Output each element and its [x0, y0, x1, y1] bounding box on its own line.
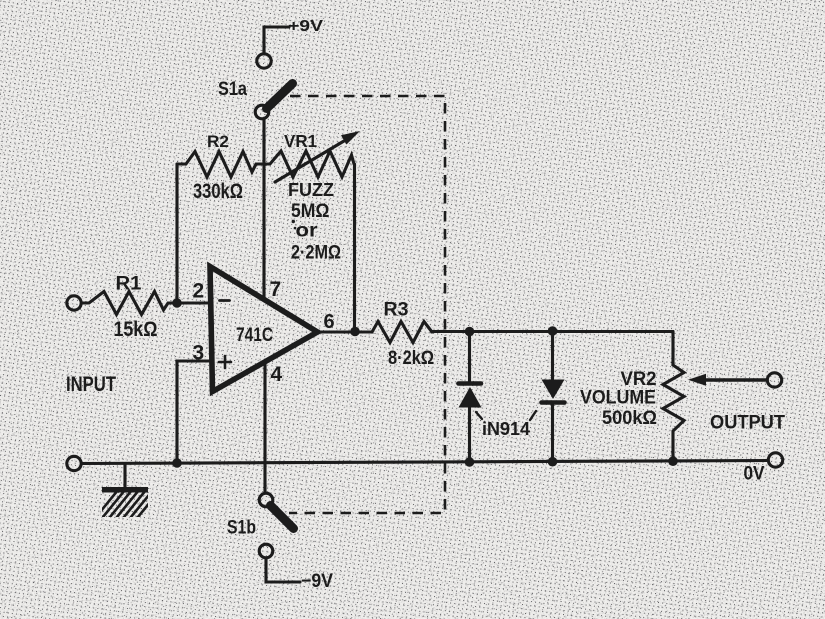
VR2 wiper arrow — [688, 374, 767, 386]
VR1 right leg down to pin 6 node — [353, 164, 356, 332]
svg-text:VR1: VR1 — [284, 131, 317, 151]
switch S1a arm — [267, 84, 293, 109]
label VR2 — [621, 369, 657, 390]
+9V supply wire — [264, 27, 289, 54]
speck under 5M — [292, 220, 295, 223]
label VOLUME — [580, 387, 656, 409]
svg-text:4: 4 — [271, 363, 283, 386]
pin label 3 — [193, 342, 205, 365]
tick left of label — [476, 412, 482, 419]
wire S1a to op-amp pin 7 — [262, 119, 265, 299]
svg-text:2·2MΩ: 2·2MΩ — [291, 243, 341, 264]
dashed gang link S1a-S1b — [289, 96, 445, 513]
resistor R1 — [82, 292, 178, 315]
OUTPUT terminal — [767, 373, 781, 387]
non-inverting input mark — [219, 356, 231, 368]
speck before or — [294, 227, 297, 230]
junction D1 / 0V — [465, 457, 475, 467]
switch S1a pole — [255, 105, 269, 119]
+9V label — [288, 18, 323, 35]
svg-text:or: or — [296, 221, 319, 242]
wire pin 6 to R3 — [318, 330, 373, 333]
label FUZZ — [288, 180, 334, 200]
pin label 6 — [324, 311, 335, 333]
svg-text:+9V: +9V — [288, 18, 323, 35]
diode D1 1N914 (anode down) — [459, 332, 482, 463]
inverting input mark — [220, 299, 230, 302]
value 15k — [114, 318, 158, 341]
svg-text:VOLUME: VOLUME — [580, 387, 656, 409]
junction VR2 / 0V — [668, 456, 678, 466]
label 0V — [744, 464, 765, 485]
pin label 7 — [270, 278, 282, 301]
potentiometer VR1 track — [264, 151, 354, 177]
label R1 — [116, 274, 142, 295]
svg-text:INPUT: INPUT — [66, 373, 116, 396]
op-amp U1 741C — [210, 267, 318, 392]
svg-text:R3: R3 — [384, 300, 409, 321]
svg-text:15kΩ: 15kΩ — [114, 318, 158, 341]
+9V terminal — [257, 54, 271, 68]
svg-text:2: 2 — [193, 280, 205, 303]
value 5M — [291, 201, 330, 222]
svg-text:OUTPUT: OUTPUT — [710, 413, 785, 434]
svg-text:6: 6 — [324, 311, 335, 333]
junction diode D1 top — [465, 327, 475, 337]
svg-text:R1: R1 — [116, 274, 142, 295]
ground (chassis) symbol — [96, 487, 160, 517]
svg-text:5MΩ: 5MΩ — [291, 201, 330, 222]
value 2.2M — [291, 243, 341, 264]
0V terminal left — [67, 456, 81, 470]
-9V terminal — [259, 544, 273, 558]
svg-text:S1b: S1b — [227, 518, 256, 539]
svg-text:500kΩ: 500kΩ — [602, 408, 657, 429]
value 8.2k — [388, 348, 434, 369]
junction pin2/R2 — [172, 298, 182, 308]
svg-text:−9V: −9V — [301, 571, 333, 592]
wire pin 3 to 0V rail — [177, 361, 209, 463]
0V rail — [82, 461, 769, 464]
label R2 — [207, 133, 229, 151]
ground stub — [123, 464, 126, 488]
label iN914 — [482, 419, 530, 439]
wire -9V — [266, 558, 300, 582]
label or — [296, 221, 319, 242]
switch S1b label — [227, 518, 256, 539]
wire R3 to VR2 top — [432, 330, 673, 333]
wire R2 left leg (node pin2 to R2) — [175, 164, 178, 303]
svg-text:741C: 741C — [236, 325, 273, 346]
switch S1a label — [218, 79, 247, 100]
junction D2 / 0V — [548, 457, 558, 467]
svg-text:3: 3 — [193, 342, 205, 365]
label INPUT — [66, 373, 116, 396]
potentiometer VR2 track — [663, 332, 684, 462]
label VR1 — [284, 131, 317, 151]
svg-text:7: 7 — [270, 278, 282, 301]
INPUT terminal — [67, 296, 81, 310]
resistor R3 — [372, 322, 432, 343]
label R3 — [384, 300, 409, 321]
VR1 wiper arrow — [275, 131, 360, 182]
junction pin3 leg / 0V — [172, 458, 182, 468]
switch S1b arm — [271, 506, 294, 529]
svg-text:R2: R2 — [207, 133, 229, 151]
svg-text:8·2kΩ: 8·2kΩ — [388, 348, 434, 369]
svg-text:iN914: iN914 — [482, 419, 530, 439]
value 330k — [193, 180, 243, 203]
diode D2 1N914 (anode up) — [542, 331, 565, 462]
pin label 4 — [271, 363, 283, 386]
svg-text:330kΩ: 330kΩ — [193, 180, 243, 203]
junction pin6/VR1 — [350, 327, 360, 337]
pin label 2 — [193, 280, 205, 303]
svg-text:0V: 0V — [744, 464, 765, 485]
resistor R2 — [177, 152, 264, 178]
tick right of label — [530, 411, 536, 420]
svg-text:S1a: S1a — [218, 79, 247, 100]
wire R1 to pin 2 — [177, 301, 209, 304]
label 741C — [236, 325, 273, 346]
wire pin 4 down to S1b — [263, 364, 266, 493]
junction diode D2 top — [548, 326, 558, 336]
0V terminal right — [768, 453, 782, 467]
switch S1b pole — [259, 493, 273, 507]
svg-text:FUZZ: FUZZ — [288, 180, 334, 200]
value 500k — [602, 408, 657, 429]
-9V label — [301, 571, 333, 592]
label OUTPUT — [710, 413, 785, 434]
